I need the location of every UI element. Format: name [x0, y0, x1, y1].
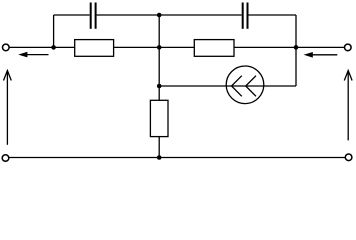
wire: left column vertical x=53.6 from top wire to main wire — [53, 15, 55, 47]
terminal port1 top (open circle) — [3, 44, 10, 51]
current arrow I1 (pointing left, under left wire) — [18, 52, 48, 58]
junction dot at source branch (159.2,86) — [157, 84, 162, 89]
voltage arrow U1 (up arrow, left side) — [4, 71, 12, 145]
wire: top segment C2 to right column — [249, 14, 297, 16]
terminal port2 bottom (open circle) — [345, 154, 352, 161]
wire: branch to controlled source — [159, 85, 226, 87]
resistor R1 — [75, 40, 114, 57]
junction dot on bottom rail (159.2,157.5) — [157, 155, 162, 160]
wire: right column vertical x=296 from top wire down to source branch — [295, 15, 297, 86]
wire: R3 to bottom rail — [158, 137, 160, 158]
controlled current source U1 (circle) — [226, 66, 264, 104]
resistor R2 — [194, 40, 234, 57]
junction dot at right node (296,47.4) — [294, 45, 299, 50]
junction dot at top middle (159,15) — [157, 13, 162, 18]
wire: axis through source circle — [226, 85, 264, 87]
bottom rail wire — [9, 157, 346, 159]
wire: R1 to middle node — [114, 46, 195, 48]
wire: middle column vertical x=159.2 from top wire to main wire — [158, 15, 160, 47]
current arrow I2 (pointing left, under right wire) — [304, 52, 338, 58]
wire: left terminal to R1 — [9, 46, 75, 48]
terminal port1 bottom (open circle) — [2, 155, 9, 162]
terminal port2 top (open circle) — [345, 44, 352, 51]
junction dot at left node (53.6,47.4) — [51, 45, 56, 50]
capacitor C2 (plates) — [242, 3, 244, 29]
wire: top segment middle column to C2 — [159, 14, 242, 16]
chevron arrowhead 1 of controlled source — [232, 76, 242, 97]
capacitor C1 (plates) — [90, 3, 92, 29]
resistor R3 (vertical) — [150, 100, 168, 136]
chevron arrowhead 2 of controlled source — [246, 76, 256, 97]
wire: top-left segment y=15 from corner to C1 — [54, 14, 90, 16]
wire: middle column vertical x=159.2 from main wire to R3 — [158, 47, 160, 100]
voltage arrow U2 (up arrow, right side) — [344, 71, 352, 141]
wire: R2 to right node — [234, 46, 345, 48]
wire: source to right column — [264, 85, 296, 87]
junction dot at middle node (159.2,47.4) — [157, 45, 162, 50]
wire: top segment C1 to middle column — [97, 14, 160, 16]
